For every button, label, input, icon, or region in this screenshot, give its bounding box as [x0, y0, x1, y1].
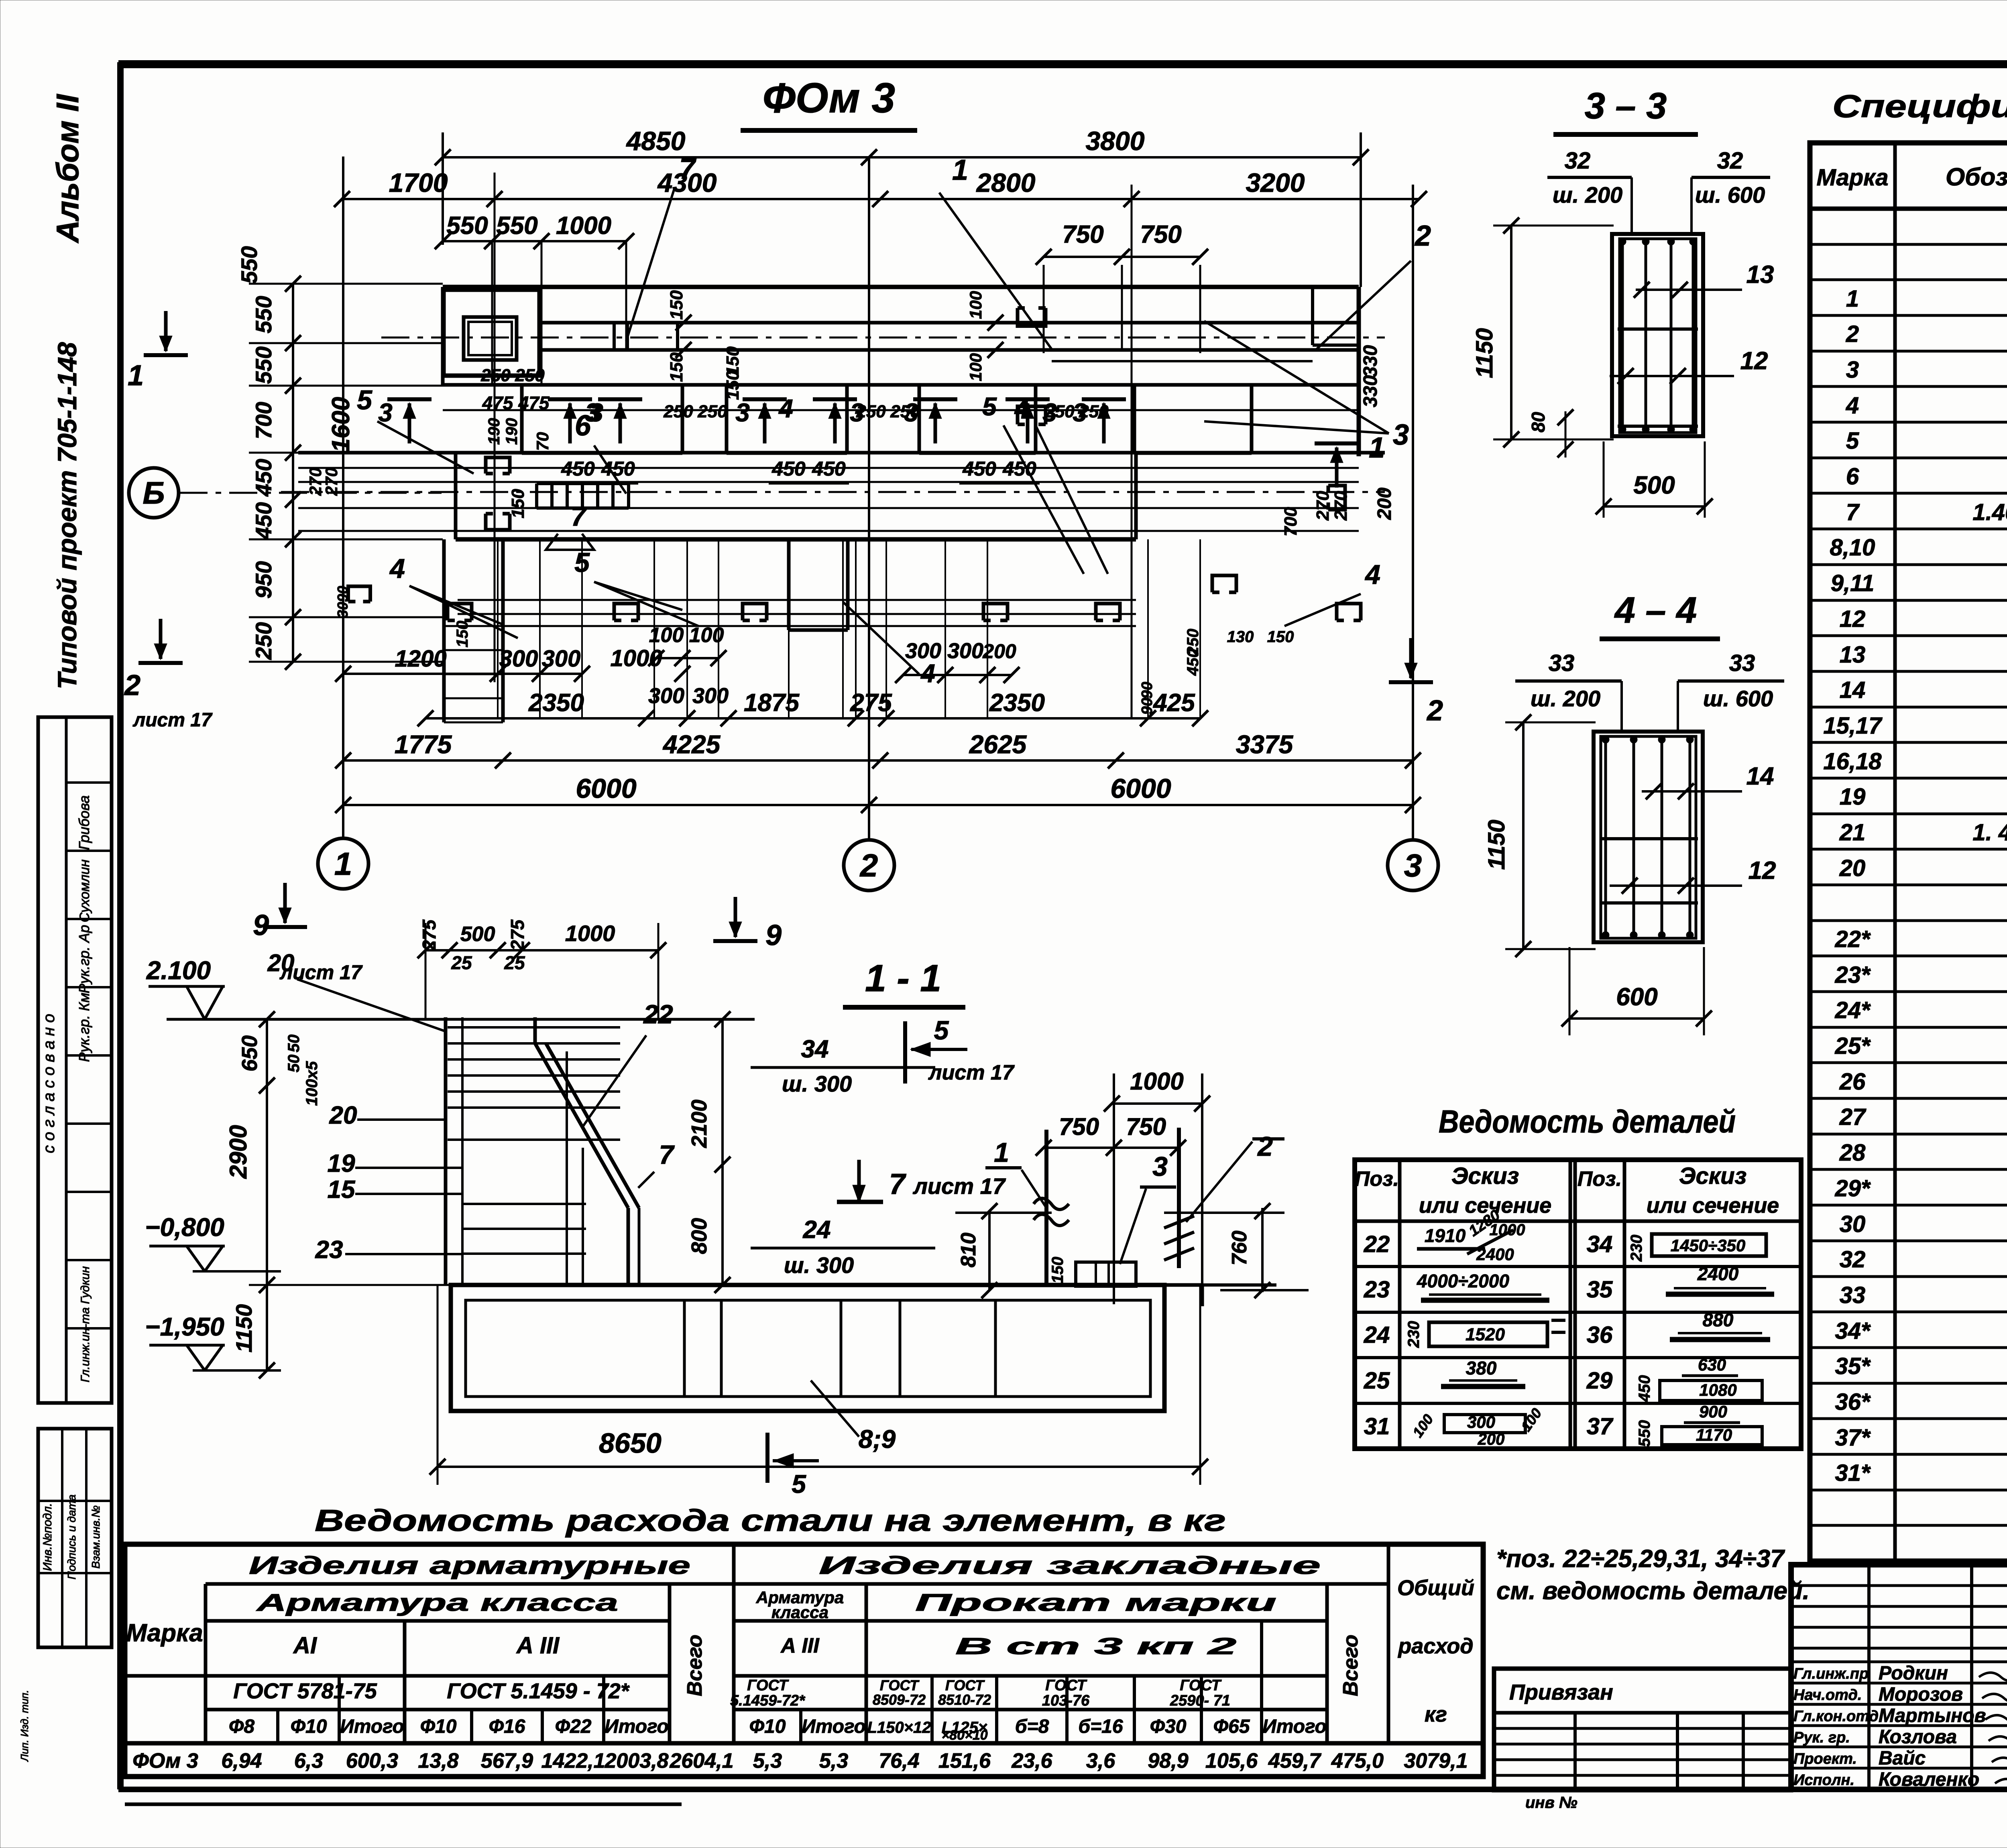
svg-text:1600: 1600 [327, 397, 355, 452]
svg-text:5,3: 5,3 [819, 1749, 848, 1773]
svg-text:27: 27 [1839, 1104, 1867, 1130]
svg-text:5: 5 [1846, 428, 1859, 454]
svg-text:В ст 3 кп 2: В ст 3 кп 2 [955, 1633, 1236, 1659]
svg-text:Ф8: Ф8 [229, 1716, 254, 1737]
svg-text:Козлова: Козлова [1879, 1726, 1957, 1748]
svg-text:1450÷350: 1450÷350 [1671, 1236, 1746, 1255]
svg-text:3: 3 [1846, 357, 1859, 383]
svg-text:Изделия арматурные: Изделия арматурные [249, 1552, 690, 1580]
svg-text:300: 300 [692, 684, 729, 708]
svg-text:8650: 8650 [599, 1427, 662, 1459]
svg-text:33: 33 [1729, 650, 1755, 676]
svg-text:5: 5 [792, 1470, 806, 1498]
svg-text:26: 26 [1839, 1069, 1866, 1095]
svg-text:100: 100 [649, 624, 684, 647]
svg-text:250: 250 [251, 622, 276, 660]
svg-text:450: 450 [561, 457, 595, 480]
svg-text:50: 50 [285, 1035, 303, 1053]
svg-text:300: 300 [648, 684, 684, 708]
svg-text:4: 4 [1846, 392, 1859, 419]
svg-text:1000: 1000 [1130, 1068, 1183, 1095]
svg-text:2604,1: 2604,1 [669, 1749, 733, 1773]
svg-text:Ведомость деталей: Ведомость деталей [1439, 1104, 1736, 1139]
svg-text:300: 300 [947, 639, 983, 663]
svg-text:7: 7 [889, 1168, 906, 1200]
svg-text:Поз.: Поз. [1578, 1167, 1622, 1191]
svg-text:30: 30 [1840, 1211, 1866, 1237]
svg-text:ГОСТ: ГОСТ [747, 1677, 789, 1694]
svg-text:250: 250 [515, 366, 545, 385]
svg-text:28: 28 [1839, 1140, 1866, 1166]
svg-text:230: 230 [1405, 1321, 1423, 1348]
svg-text:А III: А III [780, 1634, 820, 1657]
svg-text:270: 270 [306, 468, 325, 496]
svg-text:250: 250 [480, 366, 511, 385]
svg-text:8,10: 8,10 [1830, 535, 1875, 561]
svg-text:3: 3 [735, 398, 750, 427]
svg-text:Ф22: Ф22 [555, 1716, 592, 1737]
svg-text:2900: 2900 [225, 1125, 252, 1179]
svg-text:2590- 71: 2590- 71 [1170, 1692, 1230, 1709]
svg-text:550: 550 [251, 296, 276, 333]
svg-text:3375: 3375 [1236, 730, 1294, 759]
svg-text:2800: 2800 [976, 168, 1036, 197]
svg-text:4: 4 [920, 659, 935, 688]
svg-text:550: 550 [236, 246, 262, 283]
svg-text:200: 200 [1374, 488, 1395, 520]
svg-text:300: 300 [1467, 1413, 1495, 1431]
svg-text:150: 150 [1267, 628, 1294, 646]
svg-text:инв №: инв № [1525, 1794, 1578, 1811]
svg-text:16,18: 16,18 [1823, 748, 1882, 775]
svg-text:450: 450 [251, 502, 276, 540]
svg-text:450: 450 [812, 457, 846, 480]
svg-text:300: 300 [542, 646, 581, 672]
svg-text:76,4: 76,4 [879, 1749, 919, 1773]
svg-text:Грибова: Грибова [76, 795, 92, 850]
svg-text:ФОм 3: ФОм 3 [763, 75, 895, 122]
svg-text:7: 7 [571, 501, 587, 532]
svg-text:3,6: 3,6 [1086, 1749, 1115, 1773]
svg-text:12: 12 [1840, 606, 1866, 632]
svg-text:550: 550 [1636, 1420, 1653, 1447]
svg-text:1422,1: 1422,1 [541, 1749, 605, 1773]
svg-text:475: 475 [518, 392, 550, 413]
svg-text:330: 330 [1360, 345, 1381, 377]
svg-text:ГОСТ 5.1459 - 72*: ГОСТ 5.1459 - 72* [447, 1679, 630, 1703]
svg-text:Вайс: Вайс [1879, 1748, 1926, 1769]
svg-text:15: 15 [328, 1176, 356, 1204]
svg-text:−0,800: −0,800 [145, 1213, 224, 1242]
svg-text:Всего: Всего [683, 1635, 706, 1696]
svg-text:Коваленко: Коваленко [1879, 1769, 1979, 1790]
svg-text:24*: 24* [1834, 997, 1871, 1023]
svg-text:2350: 2350 [528, 689, 584, 717]
svg-text:250: 250 [663, 402, 693, 421]
svg-text:3800: 3800 [1086, 126, 1145, 156]
svg-text:1910: 1910 [1425, 1225, 1466, 1246]
svg-text:13: 13 [1746, 261, 1774, 289]
svg-text:24: 24 [1364, 1322, 1390, 1348]
svg-text:36*: 36* [1835, 1389, 1871, 1415]
svg-text:25*: 25* [1834, 1033, 1871, 1059]
svg-text:2625: 2625 [969, 730, 1027, 759]
svg-text:150: 150 [667, 290, 686, 320]
svg-text:1170: 1170 [1696, 1425, 1732, 1444]
svg-text:2: 2 [1846, 321, 1859, 347]
svg-text:450: 450 [601, 457, 635, 480]
svg-text:5: 5 [357, 385, 372, 415]
svg-text:*поз. 22÷25,29,31, 34÷37: *поз. 22÷25,29,31, 34÷37 [1496, 1545, 1785, 1573]
svg-text:−1,950: −1,950 [145, 1312, 224, 1341]
svg-text:33: 33 [1840, 1282, 1866, 1308]
svg-text:36: 36 [1587, 1322, 1613, 1348]
svg-text:ш. 600: ш. 600 [1695, 182, 1765, 207]
svg-text:2100: 2100 [687, 1100, 711, 1148]
svg-text:100: 100 [689, 624, 724, 647]
svg-text:22: 22 [1364, 1231, 1390, 1257]
svg-text:105,6: 105,6 [1205, 1749, 1258, 1773]
svg-text:Итого: Итого [605, 1716, 669, 1737]
svg-text:Сухомлин: Сухомлин [77, 859, 92, 922]
svg-text:7: 7 [679, 153, 696, 185]
svg-text:лист 17: лист 17 [928, 1061, 1015, 1084]
svg-text:4: 4 [1364, 559, 1380, 590]
svg-text:5,3: 5,3 [753, 1749, 782, 1773]
svg-text:АI: АI [293, 1633, 318, 1659]
svg-text:расход: расход [1397, 1634, 1473, 1658]
svg-text:см. ведомость деталей.: см. ведомость деталей. [1496, 1577, 1810, 1605]
svg-text:L150×12: L150×12 [867, 1719, 931, 1736]
svg-text:250: 250 [697, 402, 727, 421]
svg-text:13: 13 [1840, 642, 1866, 668]
svg-text:630: 630 [1698, 1355, 1726, 1374]
svg-text:450: 450 [771, 457, 806, 480]
svg-text:3: 3 [904, 398, 918, 427]
svg-text:30: 30 [334, 602, 351, 618]
svg-text:9: 9 [765, 919, 782, 951]
svg-text:Ф10: Ф10 [420, 1716, 457, 1737]
svg-text:Гл.инж.пр: Гл.инж.пр [1793, 1665, 1869, 1682]
svg-text:Поз.: Поз. [1355, 1167, 1399, 1191]
svg-text:600: 600 [1616, 983, 1657, 1011]
svg-text:1080: 1080 [1699, 1380, 1736, 1399]
svg-text:14: 14 [1746, 762, 1774, 790]
svg-text:31*: 31* [1835, 1460, 1871, 1486]
svg-text:150: 150 [454, 621, 471, 648]
svg-text:103-76: 103-76 [1042, 1692, 1090, 1709]
svg-text:550: 550 [446, 212, 488, 240]
svg-text:ш. 200: ш. 200 [1531, 686, 1600, 711]
svg-text:25: 25 [1364, 1368, 1390, 1394]
svg-text:200: 200 [982, 640, 1016, 663]
svg-text:459,7: 459,7 [1268, 1749, 1321, 1773]
svg-text:Подпись и дата: Подпись и дата [65, 1494, 78, 1580]
svg-text:Ф30: Ф30 [1150, 1716, 1187, 1737]
svg-text:Ф10: Ф10 [749, 1716, 786, 1737]
svg-text:23: 23 [1364, 1277, 1390, 1303]
svg-text:20: 20 [329, 1102, 357, 1129]
svg-text:ГОСТ: ГОСТ [945, 1677, 985, 1693]
svg-text:12: 12 [1740, 347, 1768, 375]
svg-text:Родкин: Родкин [1879, 1663, 1948, 1684]
svg-text:5: 5 [982, 392, 997, 421]
svg-text:750: 750 [1126, 1113, 1166, 1140]
svg-text:2: 2 [859, 848, 878, 883]
svg-text:9,11: 9,11 [1831, 570, 1875, 596]
svg-text:34: 34 [1587, 1231, 1613, 1257]
svg-text:4850: 4850 [626, 126, 686, 156]
svg-text:Морозов: Морозов [1879, 1684, 1963, 1705]
svg-text:ФОм 3: ФОм 3 [132, 1749, 198, 1773]
svg-text:Рук. гр.: Рук. гр. [1793, 1729, 1850, 1746]
svg-text:кг: кг [1425, 1702, 1447, 1726]
svg-text:200: 200 [1478, 1431, 1505, 1448]
svg-text:2400: 2400 [1476, 1245, 1514, 1264]
svg-text:150: 150 [1049, 1257, 1067, 1284]
svg-text:Ф65: Ф65 [1213, 1716, 1250, 1737]
svg-text:А III: А III [516, 1633, 560, 1659]
svg-text:лист 17: лист 17 [912, 1173, 1006, 1199]
svg-text:100: 100 [966, 353, 985, 381]
svg-text:Привязан: Привязан [1509, 1680, 1613, 1704]
svg-text:5: 5 [574, 547, 590, 578]
svg-text:Исполн.: Исполн. [1793, 1772, 1854, 1789]
svg-text:Обозначение: Обозначение [1946, 163, 2007, 191]
svg-text:Спецификация к фундаменту Ф: Спецификация к фундаменту ФОм3 [1832, 88, 2007, 124]
svg-text:ГОСТ: ГОСТ [1180, 1677, 1221, 1694]
svg-text:ш. 300: ш. 300 [784, 1252, 854, 1278]
svg-text:20: 20 [1839, 855, 1866, 881]
svg-text:25: 25 [451, 952, 472, 973]
svg-text:Ф16: Ф16 [489, 1716, 525, 1737]
svg-text:32: 32 [1840, 1246, 1866, 1273]
svg-text:или сечение: или сечение [1647, 1193, 1779, 1218]
svg-text:3: 3 [1404, 848, 1422, 883]
svg-text:700: 700 [1281, 507, 1301, 537]
svg-text:450: 450 [251, 459, 276, 496]
svg-text:270: 270 [1331, 491, 1351, 521]
svg-text:6: 6 [1846, 464, 1859, 490]
svg-text:14: 14 [1840, 677, 1866, 703]
svg-text:1875: 1875 [744, 689, 800, 717]
svg-text:4 – 4: 4 – 4 [1614, 590, 1697, 631]
svg-text:1150: 1150 [231, 1304, 256, 1352]
svg-text:1. 410 - 2 вып. 1: 1. 410 - 2 вып. 1 [1972, 819, 2007, 846]
svg-text:34: 34 [801, 1035, 829, 1063]
svg-text:б=16: б=16 [1078, 1716, 1123, 1737]
svg-text:23: 23 [315, 1236, 343, 1264]
svg-text:650: 650 [238, 1035, 262, 1071]
svg-text:151,6: 151,6 [938, 1749, 991, 1773]
svg-text:450: 450 [962, 457, 996, 480]
svg-text:1775: 1775 [395, 730, 452, 759]
svg-text:35*: 35* [1835, 1353, 1871, 1379]
svg-text:4225: 4225 [662, 730, 721, 759]
svg-text:ГОСТ 5781-75: ГОСТ 5781-75 [233, 1679, 377, 1703]
svg-text:4: 4 [389, 553, 405, 584]
svg-text:Типовой проект 705-1-148: Типовой проект 705-1-148 [52, 342, 82, 689]
svg-text:800: 800 [687, 1218, 711, 1254]
svg-text:ш. 600: ш. 600 [1703, 686, 1773, 711]
svg-text:750: 750 [1140, 221, 1181, 248]
svg-text:6000: 6000 [1110, 773, 1171, 804]
svg-text:с о г л а с о в а н о: с о г л а с о в а н о [40, 1014, 58, 1153]
svg-text:3: 3 [850, 398, 864, 427]
svg-text:760: 760 [1228, 1231, 1251, 1266]
svg-text:8509-72: 8509-72 [873, 1691, 926, 1708]
svg-text:Мартынов: Мартынов [1879, 1705, 1986, 1726]
svg-text:1700: 1700 [389, 168, 448, 197]
svg-text:330: 330 [1360, 375, 1381, 407]
svg-text:3: 3 [1393, 419, 1409, 451]
svg-text:150: 150 [723, 370, 743, 400]
svg-text:475,0: 475,0 [1331, 1749, 1384, 1773]
svg-text:6,94: 6,94 [221, 1749, 262, 1773]
svg-text:24: 24 [803, 1216, 831, 1244]
svg-text:750: 750 [1059, 1113, 1099, 1140]
svg-text:70: 70 [533, 432, 552, 451]
svg-text:Лип. Изд. тип.: Лип. Изд. тип. [18, 1690, 31, 1762]
svg-text:6000: 6000 [576, 773, 636, 804]
svg-text:50: 50 [285, 1055, 303, 1073]
svg-text:25: 25 [504, 952, 525, 973]
svg-text:5: 5 [934, 1015, 949, 1045]
svg-text:37*: 37* [1835, 1425, 1871, 1451]
svg-text:7: 7 [1846, 499, 1860, 525]
svg-text:19: 19 [1840, 784, 1866, 810]
svg-text:ГОСТ: ГОСТ [880, 1677, 920, 1693]
svg-text:ш. 300: ш. 300 [782, 1071, 852, 1096]
svg-text:22*: 22* [1834, 926, 1871, 952]
svg-text:8510-72: 8510-72 [938, 1691, 991, 1708]
svg-text:Альбом II: Альбом II [50, 94, 85, 244]
svg-text:лист 17: лист 17 [132, 710, 213, 731]
svg-text:Б: Б [142, 475, 165, 510]
svg-text:600,3: 600,3 [346, 1749, 398, 1773]
svg-text:5.1459-72*: 5.1459-72* [730, 1692, 806, 1709]
svg-text:Эскиз: Эскиз [1451, 1163, 1519, 1189]
svg-text:Прокат марки: Прокат марки [915, 1589, 1276, 1616]
svg-text:3 – 3: 3 – 3 [1585, 85, 1667, 126]
svg-text:450: 450 [1636, 1375, 1653, 1403]
svg-text:Взам.инв.№: Взам.инв.№ [90, 1505, 102, 1569]
svg-text:500: 500 [460, 923, 495, 946]
svg-text:×80×10: ×80×10 [941, 1728, 987, 1743]
svg-text:32: 32 [1565, 148, 1591, 174]
svg-text:275: 275 [419, 919, 440, 951]
svg-text:2400: 2400 [1697, 1263, 1739, 1284]
svg-text:380: 380 [1466, 1358, 1497, 1378]
svg-text:Итого: Итого [802, 1716, 866, 1737]
svg-text:21: 21 [1839, 819, 1866, 846]
svg-text:Рук.гр. Км: Рук.гр. Км [76, 993, 92, 1062]
svg-text:1.400 -15 вып. 1: 1.400 -15 вып. 1 [1972, 499, 2007, 525]
svg-text:3200: 3200 [1246, 168, 1305, 197]
svg-text:29: 29 [1586, 1368, 1613, 1394]
svg-text:Марка: Марка [1816, 165, 1888, 191]
svg-text:29*: 29* [1834, 1175, 1871, 1202]
svg-text:Общий: Общий [1397, 1576, 1474, 1600]
svg-text:Проект.: Проект. [1793, 1750, 1857, 1767]
svg-text:23,6: 23,6 [1011, 1749, 1052, 1773]
svg-text:425: 425 [1152, 689, 1195, 717]
svg-text:1: 1 [128, 360, 144, 392]
svg-text:35: 35 [1587, 1277, 1613, 1303]
svg-text:1: 1 [1846, 286, 1859, 312]
svg-text:2003,8: 2003,8 [604, 1749, 668, 1773]
svg-text:2: 2 [1414, 220, 1431, 252]
svg-text:Инв.№подл.: Инв.№подл. [41, 1503, 54, 1571]
svg-text:22: 22 [643, 999, 673, 1029]
svg-text:810: 810 [957, 1233, 980, 1268]
svg-text:ш. 200: ш. 200 [1553, 182, 1622, 207]
svg-text:Итого: Итого [1262, 1716, 1327, 1737]
svg-text:1000: 1000 [556, 212, 611, 240]
svg-text:450: 450 [1184, 649, 1202, 676]
svg-text:Ведомость расхода ст: Ведомость расхода стали на элемент, в кг [315, 1504, 1226, 1538]
svg-text:20: 20 [267, 949, 295, 976]
svg-text:Гл.инж.ин-та Гудкин: Гл.инж.ин-та Гудкин [79, 1266, 92, 1382]
svg-text:Изделия закладные: Изделия закладные [819, 1552, 1321, 1580]
svg-text:80: 80 [1528, 412, 1549, 433]
svg-text:3: 3 [589, 398, 603, 427]
svg-text:ГОСТ: ГОСТ [1045, 1677, 1087, 1694]
svg-text:270: 270 [322, 468, 341, 496]
svg-text:Марка: Марка [126, 1619, 203, 1647]
svg-text:Эскиз: Эскиз [1679, 1163, 1746, 1189]
svg-text:1150: 1150 [1484, 820, 1510, 870]
svg-text:1: 1 [994, 1137, 1009, 1168]
svg-text:1 - 1: 1 - 1 [865, 957, 941, 1000]
svg-text:31: 31 [1364, 1413, 1390, 1439]
svg-text:130: 130 [1227, 628, 1254, 646]
svg-text:2350: 2350 [989, 689, 1045, 717]
svg-text:Гл.кон.отд: Гл.кон.отд [1793, 1708, 1879, 1725]
svg-text:700: 700 [251, 402, 276, 439]
svg-text:750: 750 [1062, 221, 1103, 248]
svg-text:37: 37 [1587, 1413, 1614, 1439]
svg-text:Нач.отд.: Нач.отд. [1793, 1687, 1862, 1704]
svg-text:475: 475 [482, 392, 514, 413]
svg-text:1520: 1520 [1466, 1325, 1505, 1344]
svg-text:класса: класса [771, 1603, 828, 1622]
svg-text:2: 2 [1426, 695, 1443, 727]
svg-text:23*: 23* [1834, 962, 1871, 988]
svg-text:8;9: 8;9 [859, 1425, 896, 1454]
svg-text:550: 550 [496, 212, 537, 240]
svg-text:б=8: б=8 [1015, 1716, 1049, 1737]
svg-text:500: 500 [1633, 472, 1675, 499]
svg-text:190: 190 [503, 418, 521, 445]
svg-text:3079,1: 3079,1 [1404, 1749, 1468, 1773]
svg-text:100x5: 100x5 [303, 1061, 321, 1106]
svg-text:1: 1 [334, 846, 352, 882]
svg-text:1: 1 [952, 154, 968, 186]
svg-text:13,8: 13,8 [418, 1749, 458, 1773]
svg-text:880: 880 [1703, 1309, 1734, 1330]
svg-text:1000: 1000 [565, 921, 615, 946]
svg-text:550: 550 [251, 346, 276, 384]
svg-text:275: 275 [507, 919, 528, 951]
svg-text:230: 230 [1628, 1235, 1645, 1262]
svg-text:3: 3 [1152, 1151, 1168, 1182]
svg-text:Ф10: Ф10 [291, 1716, 327, 1737]
svg-text:4000÷2000: 4000÷2000 [1417, 1271, 1509, 1291]
svg-text:12: 12 [1748, 857, 1776, 884]
svg-text:3: 3 [1073, 398, 1087, 427]
svg-text:1000: 1000 [610, 645, 662, 671]
